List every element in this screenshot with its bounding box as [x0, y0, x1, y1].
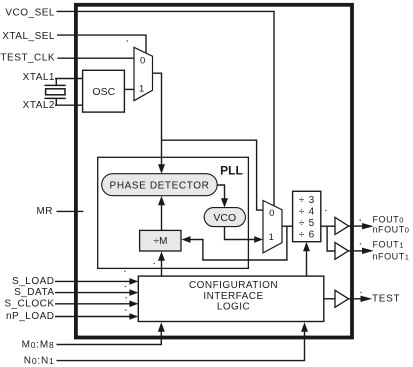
arrowhead FOUT1 output — [362, 248, 374, 254]
arrowhead N0:N1 into config logic — [301, 322, 308, 331]
noise speck — [126, 40, 128, 42]
svg-text:S_CLOCK: S_CLOCK — [4, 298, 54, 309]
noise speck — [360, 292, 362, 294]
wire phase detector to VCO — [217, 185, 224, 199]
noise speck — [124, 271, 126, 273]
wire crystal bottom stem — [55, 98, 57, 105]
svg-text:÷M: ÷M — [154, 236, 168, 247]
svg-text:VCO: VCO — [213, 212, 236, 224]
wire mux2 output to output divider — [282, 225, 293, 227]
arrowhead S_DATA — [129, 289, 138, 296]
wire crystal top stem — [55, 79, 57, 86]
svg-text:PLL: PLL — [220, 163, 243, 177]
noise speck — [125, 309, 127, 311]
mux U1 (reference select) — [134, 47, 153, 100]
svg-text:FOUT0: FOUT0 — [373, 214, 404, 224]
svg-text:PHASE DETECTOR: PHASE DETECTOR — [110, 180, 210, 191]
wire divider M output up to phase detector — [161, 205, 163, 230]
configuration interface logic block — [138, 276, 323, 321]
svg-text:INTERFACE: INTERFACE — [203, 291, 263, 302]
wire output divider to buffer 1 — [321, 225, 335, 227]
svg-text:XTAL2: XTAL2 — [23, 100, 55, 111]
noise speck — [125, 286, 127, 288]
wire buffer 1 to FOUT0 pads — [349, 225, 363, 227]
wire feedback from mux2 output to divider M — [191, 226, 287, 260]
crystal Y1 top plate — [45, 84, 66, 86]
wire junction to buffer 2 — [327, 226, 335, 251]
wire S_LOAD to config logic — [55, 280, 130, 282]
arrowhead S_LOAD — [129, 278, 138, 285]
svg-text:S_DATA: S_DATA — [14, 287, 54, 298]
svg-text:LOGIC: LOGIC — [217, 302, 250, 313]
arrowhead into mux2 input 1 — [254, 236, 263, 243]
noise speck — [360, 243, 362, 245]
svg-text:÷ 4: ÷ 4 — [299, 207, 315, 218]
wire configuration logic up to divider M — [161, 261, 163, 277]
svg-text:VCO_SEL: VCO_SEL — [5, 7, 55, 18]
TEST output buffer — [335, 290, 349, 307]
arrowhead into output divider bottom — [303, 242, 310, 251]
output buffer 2 — [335, 242, 348, 259]
arrowhead FOUT0 output — [362, 223, 374, 229]
wire M0:M8 to config logic — [57, 331, 162, 344]
arrowhead M0:M8 into config logic — [158, 322, 165, 331]
wire mux1 output down to phase detector — [153, 73, 162, 165]
wire nP_LOAD to config logic — [55, 316, 130, 318]
PLL block outline — [98, 157, 249, 268]
svg-text:TEST: TEST — [372, 294, 400, 305]
divider M block — [140, 230, 181, 251]
output divider block (divide 3 4 5 6) — [293, 191, 321, 241]
noise speck — [125, 297, 127, 299]
wire buffer 2 to FOUT1 pads — [348, 250, 362, 252]
arrowhead TEST output — [361, 296, 373, 302]
wire TEST_CLK to mux1 input 0 — [58, 57, 135, 59]
crystal Y1 bottom plate — [45, 97, 66, 99]
oscillator OSC — [83, 70, 125, 112]
noise speck — [325, 210, 327, 212]
wire MR stub into chip — [57, 210, 84, 212]
wire XTAL_SEL to mux1 select — [57, 35, 146, 53]
svg-text:FOUT1: FOUT1 — [373, 240, 404, 250]
svg-text:nFOUT1: nFOUT1 — [373, 251, 410, 261]
svg-text:MR: MR — [36, 206, 53, 217]
svg-text:0: 0 — [140, 55, 145, 66]
arrowhead into divider M right side — [182, 236, 191, 243]
svg-text:N0:N1: N0:N1 — [24, 356, 55, 367]
wire configuration logic to output divider — [306, 251, 308, 276]
wire N0:N1 to config logic — [57, 331, 305, 360]
wire config logic to TEST buffer — [324, 298, 335, 300]
svg-text:XTAL1: XTAL1 — [23, 72, 55, 83]
wire XTAL2 to OSC — [55, 104, 83, 106]
svg-text:CONFIGURATION: CONFIGURATION — [189, 280, 278, 291]
svg-text:OSC: OSC — [92, 86, 115, 98]
svg-text:XTAL_SEL: XTAL_SEL — [2, 31, 55, 42]
svg-text:S_LOAD: S_LOAD — [12, 276, 54, 287]
arrowhead into divider M bottom — [158, 251, 165, 260]
wire S_CLOCK to config logic — [55, 303, 130, 305]
svg-text:÷ 5: ÷ 5 — [299, 218, 315, 229]
arrowhead into phase detector — [158, 164, 165, 174]
wire TEST buffer to pad — [349, 298, 361, 300]
svg-text:nFOUT0: nFOUT0 — [373, 225, 410, 235]
svg-text:TEST_CLK: TEST_CLK — [0, 52, 55, 63]
arrowhead S_CLOCK — [129, 301, 138, 308]
svg-text:1: 1 — [139, 83, 144, 94]
output buffer 1 — [335, 217, 349, 234]
wire S_DATA to config logic — [55, 292, 130, 294]
arrowhead into VCO — [221, 198, 228, 207]
svg-text:÷ 6: ÷ 6 — [299, 230, 315, 241]
wire VCO output to mux2 input 1 — [225, 227, 255, 240]
chip boundary border — [76, 5, 352, 338]
arrowhead from divider M into phase detector bottom — [158, 196, 165, 205]
noise speck — [359, 219, 361, 221]
svg-text:1: 1 — [269, 232, 274, 243]
wire branch mux1 output to mux2 input 0 — [162, 140, 264, 210]
noise speck — [153, 263, 155, 265]
wire OSC output to mux1 input 1 — [124, 88, 134, 90]
phase detector U2 — [102, 174, 218, 196]
svg-text:nP_LOAD: nP_LOAD — [6, 311, 55, 322]
svg-text:÷ 3: ÷ 3 — [299, 195, 315, 206]
crystal Y1 body — [46, 89, 65, 95]
VCO U3 — [204, 208, 245, 227]
mux U4 (PLL bypass select) — [263, 201, 282, 253]
arrowhead nP_LOAD — [129, 313, 138, 320]
svg-text:M0:M8: M0:M8 — [22, 339, 55, 350]
wire XTAL1 to OSC — [55, 78, 83, 80]
svg-text:0: 0 — [269, 208, 274, 219]
wire VCO_SEL to mux2 select — [57, 11, 275, 206]
